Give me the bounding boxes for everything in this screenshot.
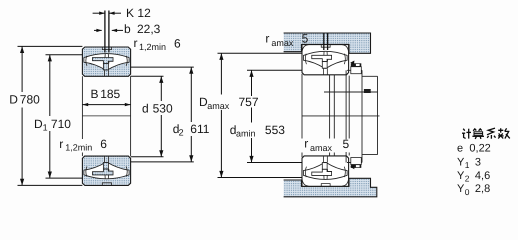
right oil hole <box>324 34 328 51</box>
svg-text:5: 5 <box>302 32 309 46</box>
svg-text:22,3: 22,3 <box>137 22 161 36</box>
bearing face lines between sections <box>82 76 130 156</box>
svg-text:553: 553 <box>265 123 285 137</box>
svg-text:1: 1 <box>43 123 48 133</box>
bearing right top <box>302 45 349 75</box>
middle structure lines <box>302 70 380 162</box>
svg-text:0: 0 <box>465 187 470 197</box>
d_amin 553 label <box>235 124 258 138</box>
svg-text:1: 1 <box>465 160 470 170</box>
dimension d_amin line and extension lines <box>247 70 302 162</box>
svg-text:710: 710 <box>51 117 71 131</box>
svg-text:D: D <box>9 92 18 106</box>
svg-text:b: b <box>124 22 131 36</box>
svg-text:1,2min: 1,2min <box>139 42 166 52</box>
svg-text:4,6: 4,6 <box>475 170 490 182</box>
svg-text:r: r <box>134 36 138 50</box>
dimension d2 <box>131 67 194 162</box>
svg-text:B: B <box>91 87 99 101</box>
svg-text:6: 6 <box>174 37 181 51</box>
bearing section bottom (mirror) <box>82 156 130 185</box>
svg-text:5: 5 <box>343 137 350 151</box>
dimension d <box>131 76 164 157</box>
svg-text:K: K <box>126 6 134 20</box>
svg-text:12: 12 <box>137 6 151 20</box>
dimension b arrows <box>94 29 102 31</box>
svg-text:611: 611 <box>190 122 209 136</box>
bearing right bottom <box>302 156 349 186</box>
r12min bottom label <box>58 139 107 153</box>
dimension D1 <box>46 55 83 178</box>
dimension K arrows <box>93 12 123 33</box>
D_amax 757 label <box>205 96 226 110</box>
svg-text:0,22: 0,22 <box>469 143 490 155</box>
svg-text:1,2min: 1,2min <box>65 143 92 153</box>
svg-text:Y: Y <box>457 157 465 169</box>
svg-text:Y: Y <box>457 170 465 182</box>
oil hole lines <box>105 11 109 53</box>
dimension D_amax line and extension lines <box>218 53 303 177</box>
计算系数 (hand drawn) <box>462 128 510 139</box>
svg-text:6: 6 <box>100 137 107 151</box>
svg-text:185: 185 <box>100 87 120 101</box>
svg-text:2,8: 2,8 <box>475 183 490 195</box>
svg-text:e: e <box>457 143 463 155</box>
locknut top <box>350 61 361 74</box>
housing top band <box>284 33 371 53</box>
svg-text:3: 3 <box>475 157 481 169</box>
housing bottom band <box>284 178 377 197</box>
shaft fitting block <box>364 89 371 93</box>
svg-text:r: r <box>304 137 308 151</box>
svg-text:2: 2 <box>179 128 184 138</box>
svg-text:d: d <box>142 102 149 116</box>
svg-text:amax: amax <box>310 143 333 153</box>
bearing section top <box>82 47 130 76</box>
dimension D <box>18 46 83 185</box>
centerline left view <box>82 115 130 117</box>
svg-text:757: 757 <box>239 95 259 109</box>
svg-text:amax: amax <box>207 101 230 111</box>
svg-text:Y: Y <box>457 183 465 195</box>
svg-text:780: 780 <box>20 92 40 106</box>
svg-text:amax: amax <box>271 38 294 48</box>
r amax bottom label <box>303 140 348 153</box>
svg-text:530: 530 <box>153 102 173 116</box>
svg-text:r: r <box>59 137 63 151</box>
dimension B <box>82 104 130 106</box>
svg-text:2: 2 <box>465 174 470 184</box>
svg-text:amin: amin <box>236 129 256 139</box>
svg-text:r: r <box>265 32 269 46</box>
locknut bottom <box>350 158 361 170</box>
